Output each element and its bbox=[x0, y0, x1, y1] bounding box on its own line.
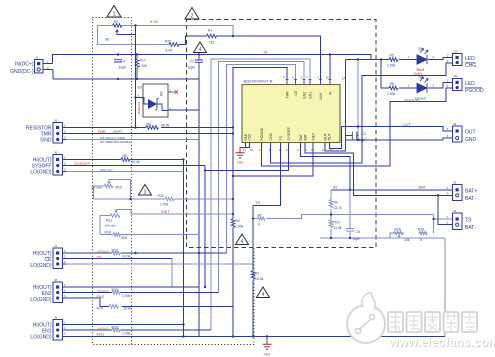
connector J11 (LED PGOOD) bbox=[447, 74, 485, 94]
wire R19 to R16 row bbox=[394, 232, 427, 234]
svg-text:CHG: CHG bbox=[414, 71, 423, 76]
svg-text:GND: GND bbox=[465, 137, 477, 143]
resistor R21 (1.50k) bbox=[165, 197, 174, 201]
svg-text:IN: IN bbox=[333, 184, 337, 189]
wire R7 column leads bbox=[252, 206, 254, 337]
svg-text:4: 4 bbox=[241, 239, 244, 245]
LED D1 (Red) bbox=[408, 47, 435, 72]
wire R1 to IC pin ILIM bbox=[216, 36, 321, 80]
resistor R17 (1.00k) bbox=[135, 55, 139, 80]
resistor R15 (1.00k jumper) bbox=[112, 328, 120, 332]
svg-text:15: 15 bbox=[330, 148, 334, 152]
LED D2 (Green) bbox=[408, 76, 435, 101]
resistor R6 (1.50k) bbox=[389, 86, 398, 90]
svg-text:10µF: 10µF bbox=[359, 138, 367, 142]
wire vertical x205 SYSOFF net bbox=[204, 166, 206, 288]
svg-text:CHG: CHG bbox=[269, 133, 273, 141]
wire J8 pin2 through R13 to EN2 riser bbox=[63, 292, 219, 294]
svg-text:RT: RT bbox=[258, 213, 262, 217]
wire R2 bottom lead to ground rail bbox=[232, 228, 234, 337]
svg-text:4: 4 bbox=[262, 292, 265, 298]
wire BAT- to TS J4 pin2 bbox=[438, 195, 453, 224]
svg-text:3: 3 bbox=[144, 189, 147, 195]
wire IC pin ISET drop bbox=[233, 143, 313, 177]
wire LED D2 to J11 pin1 bbox=[428, 83, 453, 89]
svg-text:J5: J5 bbox=[54, 118, 58, 122]
wire R16 wiper down bbox=[398, 237, 400, 239]
svg-text:1: 1 bbox=[112, 12, 115, 18]
svg-text:R2: R2 bbox=[236, 219, 240, 223]
svg-text:1.00k: 1.00k bbox=[139, 64, 148, 68]
wire bottom rail riser to battery gnd rail bbox=[444, 238, 446, 337]
wire TS net through RT to divider node bbox=[253, 215, 434, 219]
svg-text:R21: R21 bbox=[158, 194, 164, 198]
svg-text:BAT-: BAT- bbox=[465, 225, 476, 231]
wire D3 pin2 no-connect lead bbox=[168, 91, 175, 93]
svg-text:J8: J8 bbox=[54, 278, 58, 282]
svg-text:NC: NC bbox=[160, 91, 164, 96]
svg-text:R4: R4 bbox=[147, 122, 151, 126]
pin names top bbox=[285, 90, 332, 99]
svg-text:13: 13 bbox=[286, 148, 290, 152]
wire BAT+ row bbox=[331, 189, 453, 191]
svg-text:R13: R13 bbox=[112, 288, 118, 292]
capacitor C1 (10uF) bbox=[195, 55, 203, 80]
pin stubs bottom bbox=[246, 143, 330, 148]
svg-text:EN2: EN2 bbox=[97, 294, 106, 299]
svg-text:NO TIMER/TMR DISABLE: NO TIMER/TMR DISABLE bbox=[100, 140, 131, 144]
svg-text:10.0k: 10.0k bbox=[255, 277, 264, 281]
svg-text:LO(GND): LO(GND) bbox=[30, 263, 51, 269]
svg-text:10k: 10k bbox=[404, 238, 410, 242]
wire J1 pin2 to ground rail bbox=[52, 70, 54, 80]
svg-text:IN: IN bbox=[264, 49, 268, 54]
connector J10 (LED CHG) bbox=[447, 49, 477, 69]
svg-text:10K OHM 1-2, 6.5HR: 10K OHM 1-2, 6.5HR bbox=[100, 136, 125, 140]
svg-text:SYSOFF: SYSOFF bbox=[74, 161, 91, 166]
svg-text:BAT: BAT bbox=[299, 134, 303, 140]
warning triangle 4 (near R7) bbox=[257, 287, 270, 298]
wire bundle EN1 riser bbox=[211, 59, 310, 330]
svg-text:R11: R11 bbox=[106, 218, 112, 222]
svg-text:SMAZ6V2: SMAZ6V2 bbox=[137, 101, 141, 114]
wire OUT gnd to J2 pin2 bbox=[345, 138, 452, 140]
svg-text:0: 0 bbox=[258, 222, 260, 226]
wire R6 to LED D2 bbox=[399, 87, 417, 89]
red net labels bbox=[74, 19, 427, 336]
dashed option box (center, triangle 2 region) bbox=[187, 20, 377, 248]
wire J6 pin3 gnd bbox=[63, 171, 184, 173]
resistor R9 (23.7k) bbox=[329, 200, 333, 208]
wire J5 pin2 TMR net bbox=[63, 133, 234, 135]
resistor R4 (49.9k) bbox=[146, 126, 159, 130]
svg-text:604: 604 bbox=[122, 236, 128, 240]
resistor R19 (0) bbox=[419, 231, 427, 235]
wire R11 left lead down to R18 row bbox=[100, 216, 110, 235]
svg-text:Short_pins: Short_pins bbox=[100, 168, 113, 172]
svg-text:J3: J3 bbox=[453, 180, 457, 184]
svg-text:1.50k: 1.50k bbox=[387, 92, 396, 96]
connector J6 (SYSOFF select) bbox=[30, 150, 66, 175]
wire R21 row ISET programming bbox=[94, 198, 234, 200]
svg-text:R14: R14 bbox=[97, 307, 103, 311]
wire input ground rail y79 bbox=[53, 78, 199, 80]
ground VSS at IC PAD bbox=[236, 143, 250, 158]
connector J5 (timer select) bbox=[26, 118, 66, 143]
svg-text:IN: IN bbox=[328, 91, 332, 95]
svg-text:BAT-: BAT- bbox=[465, 196, 476, 202]
svg-text:10µF: 10µF bbox=[187, 66, 195, 70]
svg-text:R19: R19 bbox=[418, 228, 424, 232]
resistor R7 (10.0k) bbox=[251, 271, 255, 280]
wire J7 pin1 through R12 to CE riser bbox=[63, 252, 227, 254]
wire J6 pin2 SYSOFF bbox=[63, 165, 206, 167]
svg-text:OUT: OUT bbox=[328, 133, 332, 140]
resistor R13 (1.00k jumper) bbox=[112, 291, 120, 295]
svg-text:TS: TS bbox=[465, 218, 472, 224]
pin stubs top bbox=[287, 80, 330, 85]
svg-text:LO(GND): LO(GND) bbox=[30, 170, 51, 176]
svg-text:J2: J2 bbox=[453, 122, 457, 126]
tiny option notes bbox=[100, 130, 131, 173]
svg-text:J7: J7 bbox=[54, 244, 58, 248]
resistor R18 (604) bbox=[113, 233, 120, 237]
wire R11 wiper to ISET node bbox=[116, 209, 131, 214]
watermark Chinese characters (blocky glyph shapes) bbox=[388, 312, 477, 332]
wire R4 to TMR riser bbox=[161, 127, 233, 129]
wire J5 pin3 gnd bbox=[63, 139, 200, 141]
capacitor C4 (10uF) bbox=[114, 60, 122, 62]
svg-text:R17: R17 bbox=[140, 59, 146, 63]
wire C2 leads bbox=[345, 135, 358, 137]
svg-text:C2: C2 bbox=[362, 132, 366, 136]
svg-text:www.elecfans.com: www.elecfans.com bbox=[388, 335, 495, 349]
warning triangle 4 (near R2) bbox=[236, 234, 249, 245]
wire R6 branch bbox=[381, 60, 389, 89]
svg-text:J10: J10 bbox=[453, 49, 458, 53]
wire R3 wiper bbox=[117, 26, 136, 35]
dotted option box (bottom jumper column) bbox=[132, 248, 255, 345]
svg-text:BAT+: BAT+ bbox=[465, 189, 477, 195]
connector J3 (BAT) bbox=[447, 180, 478, 202]
wire ISET node row bbox=[131, 213, 233, 215]
wire IN rail from J1 pin1 to LED supply corner bbox=[53, 55, 372, 64]
svg-text:ISET: ISET bbox=[161, 209, 170, 214]
capacitor C2 (10uF) bbox=[352, 132, 357, 140]
svg-text:OUT: OUT bbox=[323, 133, 327, 140]
svg-text:ISET: ISET bbox=[311, 133, 315, 141]
svg-text:D1: D1 bbox=[419, 47, 424, 51]
wire IC pin SYSOFF to x205 bbox=[205, 143, 289, 171]
wire J7 pin3 gnd bbox=[63, 263, 254, 265]
svg-text:PGOOD: PGOOD bbox=[260, 127, 264, 140]
wire J9 pin2 through R15 to EN1 riser bbox=[63, 329, 212, 331]
wire battery gnd light rail bbox=[320, 237, 445, 239]
svg-text:10µF: 10µF bbox=[353, 237, 361, 241]
svg-text:JMP0603: JMP0603 bbox=[97, 289, 109, 293]
svg-text:301k: 301k bbox=[124, 307, 132, 311]
resistor R20 (6.04) bbox=[169, 43, 179, 47]
wire vertical x171.8 CE jumper link bbox=[171, 259, 173, 288]
svg-text:PGOOD: PGOOD bbox=[405, 98, 420, 103]
svg-text:1.50k: 1.50k bbox=[387, 63, 396, 67]
wire D3 pin3 lead bbox=[136, 97, 144, 99]
wire R14 to TMR column bbox=[122, 305, 234, 307]
svg-text:TMR: TMR bbox=[285, 91, 289, 99]
wire R18 row bbox=[100, 234, 199, 236]
resistor R12 (10.0k jumper) bbox=[112, 251, 120, 255]
op-amp U1 charger IC BQ2407xRGT bbox=[242, 76, 347, 153]
resistor R14 (301k) bbox=[109, 305, 119, 309]
svg-text:2: 2 bbox=[190, 14, 193, 20]
svg-text:J1: J1 bbox=[35, 55, 39, 59]
svg-text:EN1: EN1 bbox=[97, 331, 106, 336]
connector J1 (DC input) bbox=[10, 55, 53, 75]
resistor R16 (10k trimmer) bbox=[394, 231, 403, 235]
wire 5.0V net from trimmer wiper to R1 node bbox=[122, 26, 233, 37]
svg-text:JMP0603: JMP0603 bbox=[97, 249, 109, 253]
connector J9 (EN1 select) bbox=[30, 315, 66, 340]
svg-text:J9: J9 bbox=[54, 315, 58, 319]
warning triangle 3 (ISET network) bbox=[139, 185, 152, 196]
svg-text:LED: LED bbox=[465, 56, 475, 62]
wire J9 pin1 bbox=[63, 324, 184, 326]
wire J7 pin2 bbox=[63, 258, 172, 260]
wire LED supply riser from OUT bbox=[325, 60, 345, 152]
svg-text:C5: C5 bbox=[356, 230, 360, 234]
resistor R1 (732) bbox=[207, 34, 217, 38]
svg-text:VSS: VSS bbox=[237, 161, 245, 165]
svg-text:R18: R18 bbox=[105, 230, 111, 234]
SECTION: watermark bbox=[347, 293, 495, 351]
watermark logo circle bbox=[347, 305, 385, 343]
svg-text:4: 4 bbox=[199, 47, 202, 53]
svg-text:LO(GND): LO(GND) bbox=[30, 297, 51, 303]
svg-text:CE: CE bbox=[294, 90, 298, 95]
svg-text:5.0V: 5.0V bbox=[150, 19, 159, 24]
svg-text:VSS: VSS bbox=[264, 353, 272, 357]
wire vertical x135.5 5.0V to D3 and R4 row bbox=[135, 26, 137, 128]
wire J8 pin3 to R14 bbox=[63, 298, 110, 306]
svg-text:1.00k: 1.00k bbox=[122, 294, 131, 298]
svg-text:11.0k: 11.0k bbox=[334, 226, 342, 230]
wire 5.0V trimmer loop left bbox=[97, 26, 169, 45]
svg-text:10k ohm: 10k ohm bbox=[105, 224, 117, 228]
svg-text:VSS: VSS bbox=[248, 133, 252, 141]
svg-text:LED: LED bbox=[465, 81, 475, 87]
svg-text:ILIM: ILIM bbox=[319, 93, 323, 100]
svg-text:GND: GND bbox=[40, 138, 52, 144]
wire bundle EN2 riser bbox=[219, 62, 305, 293]
svg-text:12: 12 bbox=[279, 148, 283, 152]
wire J6 pin1 through R8 bbox=[63, 159, 184, 161]
wire bundle CE riser bbox=[227, 65, 296, 253]
SECTION: components bbox=[104, 24, 427, 332]
wire D3 pin1 lead to x199 bbox=[168, 109, 199, 111]
svg-text:1.00k: 1.00k bbox=[235, 225, 244, 229]
warning triangle 4 (top, near R20) bbox=[194, 42, 207, 53]
wire J8 pin1 bbox=[63, 286, 200, 288]
connector J8 (EN2 select) bbox=[30, 278, 66, 303]
svg-text:6.04: 6.04 bbox=[166, 49, 173, 53]
svg-text:EN2: EN2 bbox=[302, 92, 306, 99]
svg-text:CE: CE bbox=[97, 254, 103, 259]
wire TS jog into J4 and down to R19 bbox=[434, 215, 453, 234]
wire R5 to LED D1 bbox=[399, 59, 417, 61]
svg-text:R20: R20 bbox=[165, 40, 171, 44]
resistor R8 (10.0k) bbox=[121, 158, 130, 162]
resistor R5 (1.50k) bbox=[389, 58, 398, 62]
wire LED supply rail bbox=[345, 59, 389, 61]
wire LED D1 to J10 pin1 bbox=[428, 58, 453, 60]
svg-text:732: 732 bbox=[209, 41, 215, 45]
resistor R3 (5K trimmer) bbox=[113, 24, 123, 28]
wire vertical x183.5 SYSOFF pullup to bottom rail bbox=[183, 160, 185, 337]
svg-text:J6: J6 bbox=[54, 150, 58, 154]
svg-text:IN(DC+): IN(DC+) bbox=[15, 61, 34, 67]
diode D3 (zener, protection) bbox=[136, 84, 179, 117]
svg-text:R10: R10 bbox=[334, 220, 340, 224]
wire C5 vertical bbox=[349, 190, 351, 238]
svg-text:10.0k: 10.0k bbox=[132, 160, 141, 164]
svg-text:LO(GND): LO(GND) bbox=[30, 335, 51, 341]
svg-text:PGOOD: PGOOD bbox=[465, 88, 484, 94]
svg-text:R7: R7 bbox=[255, 271, 259, 275]
wire IC pin PGOOD return bbox=[262, 88, 453, 166]
svg-text:23.7k: 23.7k bbox=[334, 206, 343, 210]
resistor RT (0 ohm) bbox=[258, 217, 266, 220]
svg-text:EN1: EN1 bbox=[308, 92, 312, 99]
svg-text:TMR: TMR bbox=[97, 129, 106, 134]
jumper footprint notes bbox=[97, 249, 109, 330]
svg-text:R16: R16 bbox=[395, 228, 401, 232]
svg-text:U1: U1 bbox=[342, 77, 347, 81]
svg-text:R1: R1 bbox=[208, 29, 212, 33]
svg-text:D3: D3 bbox=[138, 85, 143, 89]
svg-text:BAT: BAT bbox=[303, 134, 307, 140]
ground VSS at bottom rail bbox=[263, 337, 272, 350]
wire vertical x199 input gnd return bbox=[198, 79, 200, 337]
wire IC pin IN stub from rail bbox=[329, 55, 331, 80]
svg-text:R8: R8 bbox=[123, 154, 127, 158]
svg-text:10: 10 bbox=[250, 148, 254, 152]
wire R10 wiper link bbox=[109, 180, 131, 200]
pin numbers bottom bbox=[243, 148, 333, 152]
svg-text:OUT: OUT bbox=[465, 130, 476, 136]
svg-text:1.00k: 1.00k bbox=[122, 331, 131, 335]
wire IC pin CHG return bbox=[271, 63, 453, 163]
svg-text:R10: R10 bbox=[116, 185, 122, 189]
svg-text:R3: R3 bbox=[114, 20, 118, 24]
svg-text:JMP0603: JMP0603 bbox=[97, 326, 109, 330]
resistor R2 (1.00k) bbox=[231, 214, 235, 228]
svg-text:J4: J4 bbox=[453, 209, 457, 213]
svg-text:14: 14 bbox=[322, 148, 326, 152]
svg-text:SHORT: SHORT bbox=[113, 130, 122, 134]
SECTION: boxes bbox=[93, 18, 377, 345]
svg-text:11: 11 bbox=[259, 148, 262, 152]
svg-text:10µF: 10µF bbox=[119, 66, 127, 70]
wire bottom ground rail bbox=[63, 336, 445, 338]
wire IC pin TS drop bbox=[253, 143, 281, 206]
svg-text:5K: 5K bbox=[105, 38, 110, 42]
component value labels bbox=[91, 20, 425, 335]
wire R16 left lead to gnd rail bbox=[390, 233, 394, 238]
connector J2 (OUT) bbox=[447, 122, 477, 143]
pin names bottom bbox=[244, 127, 332, 141]
svg-text:D2: D2 bbox=[419, 76, 424, 80]
resistor R11 (10k ohm trimmer) bbox=[110, 214, 120, 218]
wire IC pin BAT to J3 via C5 node bbox=[301, 143, 350, 190]
svg-text:C1: C1 bbox=[190, 60, 194, 64]
svg-text:GND(DC-): GND(DC-) bbox=[10, 69, 34, 75]
svg-text:SYSOFF: SYSOFF bbox=[287, 127, 291, 141]
SECTION: wires bbox=[53, 26, 453, 337]
warning triangle 2 bbox=[185, 8, 199, 20]
wire J5 pin1 to R4 bbox=[63, 127, 147, 129]
svg-text:BQ2407xRGT R: BQ2407xRGT R bbox=[244, 78, 273, 83]
wire bundle TMR riser bbox=[233, 68, 287, 218]
wire IC pin OUT to J2 OUT bbox=[329, 127, 452, 149]
dotted option box (left column) bbox=[93, 18, 132, 345]
svg-text:0: 0 bbox=[420, 238, 422, 242]
wire OUT branch to LEDs bbox=[357, 60, 359, 141]
svg-text:17: 17 bbox=[243, 148, 247, 152]
svg-text:BAT: BAT bbox=[419, 184, 427, 189]
svg-text:R12: R12 bbox=[112, 248, 118, 252]
svg-text:10k ohm: 10k ohm bbox=[91, 185, 103, 189]
wire R9 upper lead bbox=[330, 190, 332, 238]
capacitor C5 (10uF) bbox=[346, 229, 354, 234]
svg-text:TS: TS bbox=[279, 135, 283, 140]
svg-text:49.9k: 49.9k bbox=[161, 123, 170, 127]
svg-text:J11: J11 bbox=[453, 74, 458, 78]
svg-text:R5: R5 bbox=[390, 53, 394, 57]
svg-text:16: 16 bbox=[326, 76, 330, 80]
svg-text:OUT: OUT bbox=[403, 122, 412, 127]
wire R10 left lead down to R21 row bbox=[94, 186, 105, 199]
svg-text:1.50k: 1.50k bbox=[160, 202, 169, 206]
svg-text:R15: R15 bbox=[112, 325, 118, 329]
svg-text:CHG: CHG bbox=[465, 63, 476, 69]
connector J4 (TS) bbox=[447, 209, 477, 231]
resistor R10b (11.0k) bbox=[329, 220, 333, 228]
resistor R10 (10k ohm trimmer) bbox=[104, 184, 113, 188]
svg-text:C4: C4 bbox=[121, 60, 125, 64]
pin numbers top bbox=[283, 76, 329, 80]
no-connect X mark bbox=[175, 90, 179, 94]
svg-text:R6: R6 bbox=[390, 82, 394, 86]
wire IC pin BAT to J3 BAT+ bbox=[305, 143, 453, 196]
connector J7 (CE select) bbox=[30, 244, 66, 269]
svg-text:R9: R9 bbox=[334, 200, 338, 204]
svg-text:TS: TS bbox=[255, 200, 260, 205]
wire R20 output to R1 left node bbox=[179, 36, 207, 45]
svg-text:10.0k: 10.0k bbox=[122, 254, 131, 258]
warning triangle 1 bbox=[107, 6, 121, 18]
